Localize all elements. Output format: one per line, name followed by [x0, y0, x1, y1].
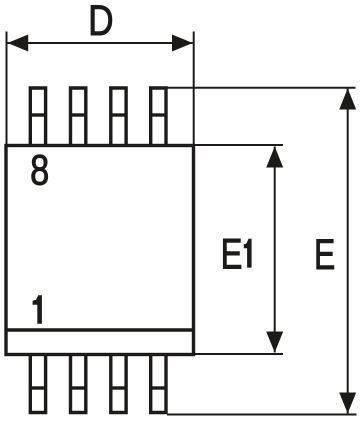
dimension D extension line right: [193, 32, 195, 147]
body chamfer line (edge line above bottom strip): [5, 328, 196, 331]
dimension E extension line bottom (from bottom pin row): [167, 414, 357, 416]
pin 8 lead (top row, leftmost): [30, 88, 45, 147]
pin 7 lead (top row, second): [71, 88, 86, 147]
label E: [314, 231, 335, 279]
svg-text:E: E: [314, 231, 335, 279]
dimension line E1 with arrowheads: [266, 147, 283, 353]
dimension line E with arrowheads: [339, 89, 356, 414]
svg-text:D: D: [88, 0, 113, 45]
dimension E extension line top (from top pin row): [168, 87, 356, 89]
label E1: [221, 230, 252, 278]
pin 6 lead (top row, third): [111, 88, 126, 147]
package body (IC outline, top view): [6, 146, 194, 355]
dimension D extension line left: [6, 32, 8, 147]
dimension E1 extension line bottom (from body bottom-right corner): [194, 353, 283, 355]
dimension E1 extension line top (from body top-right corner): [194, 144, 283, 146]
pin number 1: [33, 295, 42, 324]
pin 4 lead (bottom row, rightmost): [151, 353, 166, 413]
pin 3 lead (bottom row, third): [111, 353, 126, 413]
pin 5 lead (top row, rightmost): [151, 88, 166, 147]
label D: [88, 0, 113, 45]
svg-text:8: 8: [30, 147, 49, 194]
pin 2 lead (bottom row, second): [71, 353, 86, 413]
dimension line D with arrowheads: [8, 35, 193, 52]
pin number 8: [30, 147, 49, 194]
pin 1 lead (bottom row, leftmost): [30, 353, 45, 413]
svg-text:E: E: [221, 230, 243, 278]
